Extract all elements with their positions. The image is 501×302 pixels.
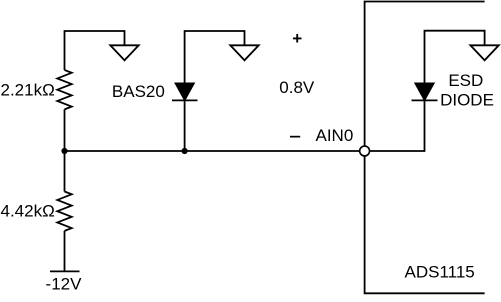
wire R1 top to ground 1 [65, 31, 125, 70]
diode BAS20 cathode bar [172, 99, 198, 101]
wire BAS20 top to ground 2 [185, 31, 245, 83]
svg-text:0.8V: 0.8V [279, 78, 315, 97]
wire ESD bottom to pin [365, 100, 425, 151]
svg-text:ESD: ESD [448, 71, 483, 90]
svg-text:ADS1115: ADS1115 [405, 262, 475, 281]
diode ESD triangle [415, 83, 433, 100]
svg-text:DIODE: DIODE [440, 90, 494, 109]
svg-text:2.21kΩ: 2.21kΩ [1, 80, 55, 99]
resistor R1 2.21k zigzag [57, 70, 71, 109]
label minus sign [290, 136, 300, 138]
ground 3 [470, 45, 498, 60]
diode BAS20 triangle [176, 83, 194, 100]
wire ESD top to ground 3 [425, 31, 485, 83]
ground 1 [110, 45, 138, 60]
-12V rail bar [50, 270, 80, 272]
wire R2 bottom to -12V rail [64, 231, 66, 272]
svg-text:AIN0: AIN0 [316, 126, 354, 145]
pin AIN0 open circle [360, 146, 370, 156]
svg-text:+: + [292, 29, 302, 48]
svg-text:BAS20: BAS20 [112, 82, 165, 101]
diode ESD cathode bar [412, 99, 438, 101]
wire R1 bottom to node to R2 top [64, 109, 66, 191]
junction dot node A [61, 148, 67, 154]
ground 2 [230, 45, 258, 60]
svg-text:-12V: -12V [46, 274, 83, 293]
wire BAS20 bottom to bus [184, 100, 186, 151]
ADS1115 box outline [365, 2, 485, 294]
resistor R2 4.42k zigzag [57, 192, 71, 231]
svg-text:4.42kΩ: 4.42kΩ [1, 201, 55, 220]
wire main bus AIN0 [65, 150, 365, 152]
junction dot node B [182, 148, 188, 154]
